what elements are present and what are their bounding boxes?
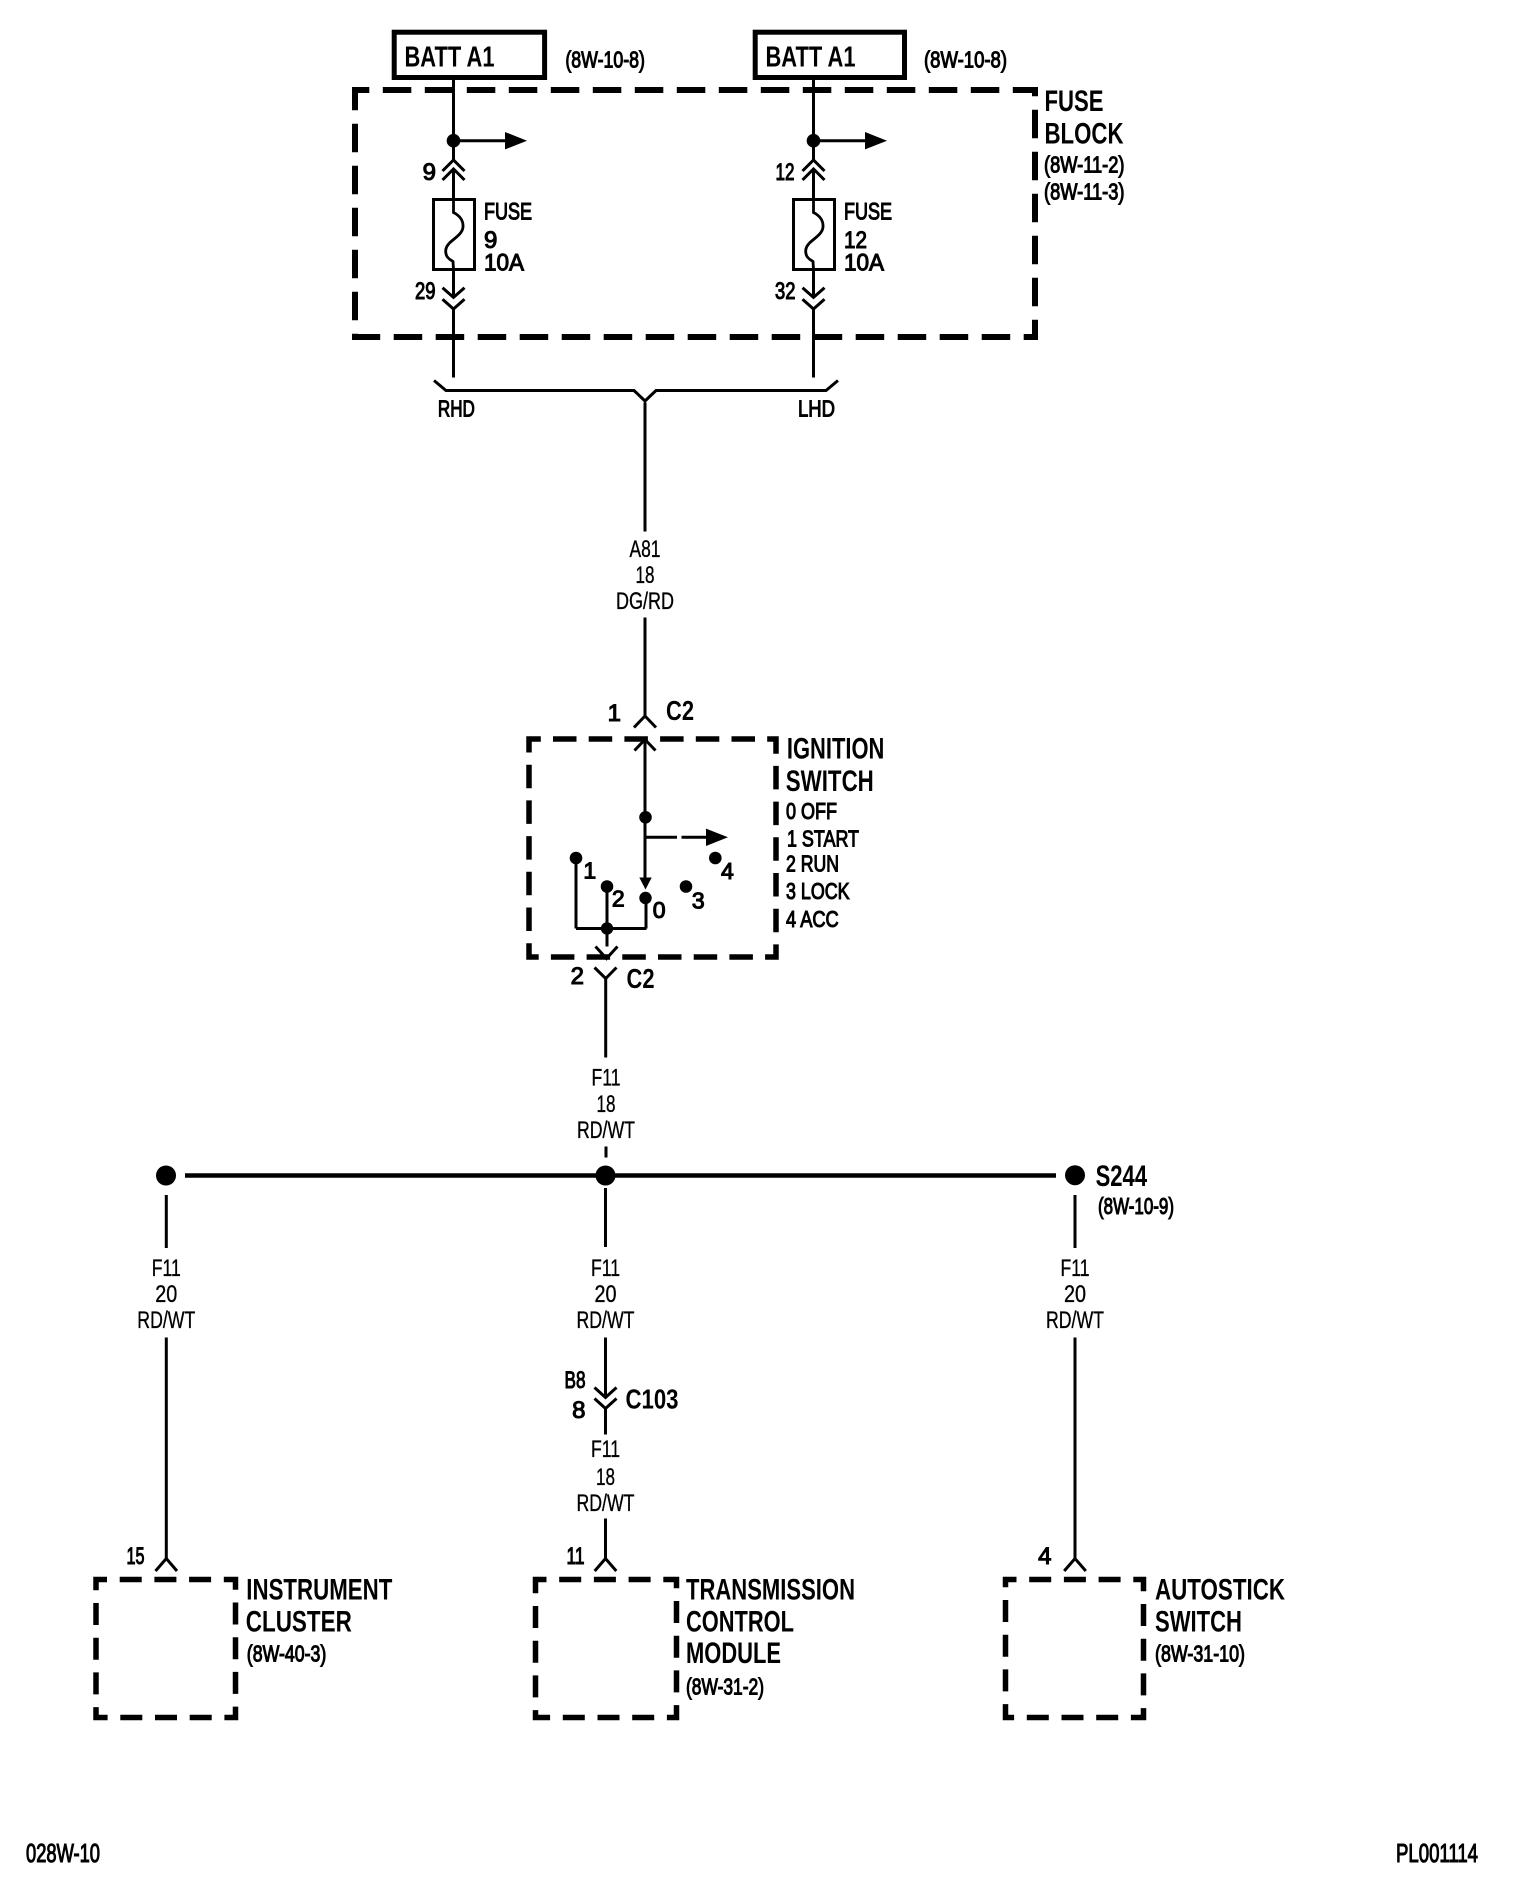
svg-text:10A: 10A (844, 250, 884, 277)
wire fuse 12 output to LHD (812, 310, 815, 378)
svg-text:RD/WT: RD/WT (577, 1490, 635, 1517)
fuse F12 value label (844, 199, 892, 277)
svg-text:SWITCH: SWITCH (786, 765, 874, 798)
switch position dot 3 (680, 880, 693, 893)
right branch label F11 20 RD/WT (1046, 1255, 1104, 1334)
splice bus wire S244 (185, 1173, 1056, 1178)
svg-text:F11: F11 (1061, 1255, 1090, 1282)
wire from position 2 down (606, 887, 609, 929)
svg-text:CLUSTER: CLUSTER (246, 1605, 352, 1638)
fuse F12 (794, 200, 835, 270)
svg-text:29: 29 (415, 278, 436, 305)
connector C2 pin 2 (female fork) (595, 968, 617, 979)
svg-text:(8W-10-9): (8W-10-9) (1098, 1193, 1174, 1219)
svg-text:18: 18 (597, 1091, 616, 1118)
svg-text:S244: S244 (1096, 1160, 1148, 1193)
svg-text:C2: C2 (666, 695, 694, 726)
svg-text:(8W-11-2): (8W-11-2) (1044, 152, 1125, 178)
switch output wire (606, 929, 609, 947)
svg-text:3: 3 (692, 888, 705, 914)
transmission control module title (686, 1574, 855, 1700)
wire from right BATT A1 into fuse block (812, 80, 815, 160)
svg-text:RD/WT: RD/WT (1046, 1307, 1104, 1334)
svg-text:20: 20 (595, 1281, 617, 1308)
svg-text:(8W-31-10): (8W-31-10) (1155, 1641, 1245, 1667)
svg-text:4: 4 (1038, 1543, 1051, 1570)
svg-text:2: 2 (571, 963, 584, 990)
switch position dot 1 (570, 852, 583, 865)
fuse block dashed box (355, 90, 1035, 337)
svg-text:BLOCK: BLOCK (1045, 118, 1124, 151)
pin 4 connector (fork) (1064, 1559, 1086, 1572)
svg-text:0 OFF: 0 OFF (786, 798, 837, 824)
power source box BATT A1 (right) (755, 32, 904, 77)
svg-text:F11: F11 (591, 1436, 620, 1463)
svg-text:RD/WT: RD/WT (577, 1117, 635, 1144)
svg-text:2: 2 (612, 886, 625, 912)
fuse F9 value label (484, 199, 532, 277)
pin 11 connector (fork) (595, 1559, 617, 1572)
svg-text:18: 18 (636, 562, 655, 589)
svg-text:(8W-11-3): (8W-11-3) (1044, 179, 1125, 205)
svg-text:(8W-31-2): (8W-31-2) (686, 1674, 764, 1700)
svg-text:PL001114: PL001114 (1396, 1838, 1478, 1868)
center branch label F11 18 RD/WT (577, 1436, 635, 1517)
svg-text:2 RUN: 2 RUN (786, 851, 839, 877)
svg-text:BATT A1: BATT A1 (405, 42, 495, 74)
wire label F11 18 RD/WT (577, 1065, 635, 1145)
svg-text:TRANSMISSION: TRANSMISSION (686, 1574, 855, 1607)
wire horizontal collector (576, 927, 647, 930)
svg-text:3 LOCK: 3 LOCK (786, 878, 850, 904)
left branch wire lower (165, 1338, 168, 1559)
switch wiper arrowhead (639, 878, 651, 890)
svg-text:(8W-10-8): (8W-10-8) (565, 46, 645, 72)
svg-text:RD/WT: RD/WT (137, 1307, 195, 1334)
autostick switch dashed box (1006, 1580, 1144, 1718)
svg-text:IGNITION: IGNITION (787, 733, 885, 766)
wire A81 lower segment (644, 618, 647, 717)
svg-text:B8: B8 (565, 1367, 586, 1394)
switch rotation arrow (646, 829, 728, 846)
svg-text:4 ACC: 4 ACC (786, 906, 839, 932)
center branch wire lower (604, 1519, 607, 1559)
ignition switch title (786, 733, 885, 933)
svg-text:A81: A81 (630, 536, 661, 563)
wire from position 0 down (645, 904, 648, 929)
svg-text:CONTROL: CONTROL (686, 1605, 794, 1638)
feed arrow right (814, 132, 888, 149)
center branch wire upper (604, 1188, 607, 1247)
svg-text:C103: C103 (626, 1384, 679, 1415)
ignition switch dashed box (529, 739, 776, 957)
svg-text:MODULE: MODULE (686, 1637, 781, 1670)
svg-text:9: 9 (423, 159, 436, 186)
splice dot left (156, 1166, 176, 1186)
svg-text:DG/RD: DG/RD (616, 588, 674, 615)
svg-text:FUSE: FUSE (844, 199, 892, 226)
svg-text:C2: C2 (627, 963, 655, 994)
junction dot left feed (447, 134, 461, 148)
pin 9 connector (double chevron up) (443, 160, 465, 180)
svg-text:(8W-40-3): (8W-40-3) (247, 1641, 326, 1667)
svg-text:(8W-10-8): (8W-10-8) (924, 46, 1007, 72)
feed arrow left (454, 132, 528, 149)
svg-text:1 START: 1 START (787, 826, 859, 852)
pin 12 connector (double chevron up) (803, 160, 825, 180)
wire stub above splice (605, 1147, 608, 1158)
wire below C103 (604, 1409, 607, 1435)
svg-text:RD/WT: RD/WT (577, 1307, 635, 1334)
splice dot center (596, 1166, 616, 1186)
svg-text:4: 4 (721, 858, 734, 884)
switch position dot 0 (639, 892, 651, 904)
wire F11 18 segment (604, 979, 607, 1058)
right branch wire upper (1074, 1195, 1077, 1248)
switch position dot 2 (601, 880, 614, 893)
fuse F9 (434, 200, 475, 270)
RHD/LHD merge brace (434, 381, 838, 402)
wire label A81 18 DG/RD (616, 536, 674, 615)
wire pin9 to fuse F9 (452, 171, 455, 200)
wire from position 1 down (575, 864, 578, 929)
instrument cluster dashed box (96, 1580, 236, 1718)
pin 32 connector (double chevron down) (803, 288, 825, 309)
wire from left BATT A1 into fuse block (452, 80, 455, 160)
pin 29 connector (double chevron down) (443, 288, 465, 309)
switch input connector (male chevron up) (635, 740, 656, 751)
right branch wire lower (1074, 1338, 1077, 1559)
splice dot right S244 (1065, 1165, 1085, 1185)
svg-text:0: 0 (653, 897, 666, 923)
svg-text:18: 18 (596, 1464, 615, 1491)
center branch label F11 20 RD/WT (577, 1255, 635, 1334)
fuse block title (1044, 85, 1125, 205)
instrument cluster title (246, 1574, 392, 1667)
svg-text:10A: 10A (484, 250, 524, 277)
svg-text:LHD: LHD (798, 396, 835, 422)
svg-text:12: 12 (776, 159, 795, 186)
transmission control module dashed box (536, 1580, 677, 1718)
svg-text:20: 20 (1064, 1281, 1086, 1308)
switch output junction dot (601, 922, 613, 934)
pin 15 connector (fork) (156, 1559, 178, 1572)
svg-text:20: 20 (155, 1281, 177, 1308)
power source box BATT A1 (left) (394, 32, 544, 77)
svg-text:FUSE: FUSE (1045, 85, 1104, 118)
svg-text:F11: F11 (591, 1255, 620, 1282)
svg-text:SWITCH: SWITCH (1155, 1605, 1242, 1638)
svg-text:1: 1 (608, 700, 621, 727)
svg-text:RHD: RHD (438, 396, 475, 422)
wire pin12 to fuse F12 (812, 171, 815, 200)
switch input wire (644, 740, 647, 879)
connector C2 pin 1 (female fork) (634, 716, 656, 728)
svg-text:FUSE: FUSE (484, 199, 532, 226)
connector C103 (double chevron down) (595, 1388, 617, 1409)
autostick switch title (1155, 1574, 1285, 1667)
switch wiper junction dot (639, 811, 652, 824)
left branch wire upper (165, 1195, 168, 1248)
svg-text:8: 8 (572, 1397, 585, 1424)
svg-text:F11: F11 (152, 1255, 181, 1282)
wire fuse 9 output to RHD (452, 310, 455, 378)
switch output connector (male chevron down) (596, 947, 618, 959)
switch position dot 4 (709, 852, 722, 865)
svg-text:AUTOSTICK: AUTOSTICK (1155, 1574, 1285, 1607)
wire A81 upper segment (644, 403, 647, 532)
svg-text:1: 1 (583, 858, 596, 884)
svg-text:11: 11 (567, 1543, 585, 1570)
svg-text:F11: F11 (592, 1065, 621, 1092)
svg-text:028W-10: 028W-10 (26, 1838, 100, 1868)
left branch label F11 20 RD/WT (137, 1255, 195, 1334)
svg-text:15: 15 (127, 1543, 145, 1570)
junction dot right feed (807, 134, 821, 148)
svg-text:INSTRUMENT: INSTRUMENT (246, 1574, 392, 1607)
svg-text:BATT A1: BATT A1 (766, 42, 856, 74)
wire fuse F9 to pin 29 (452, 270, 455, 297)
wire fuse F12 to pin 32 (812, 270, 815, 297)
center branch wire to C103 (604, 1338, 607, 1397)
svg-text:32: 32 (775, 278, 796, 305)
